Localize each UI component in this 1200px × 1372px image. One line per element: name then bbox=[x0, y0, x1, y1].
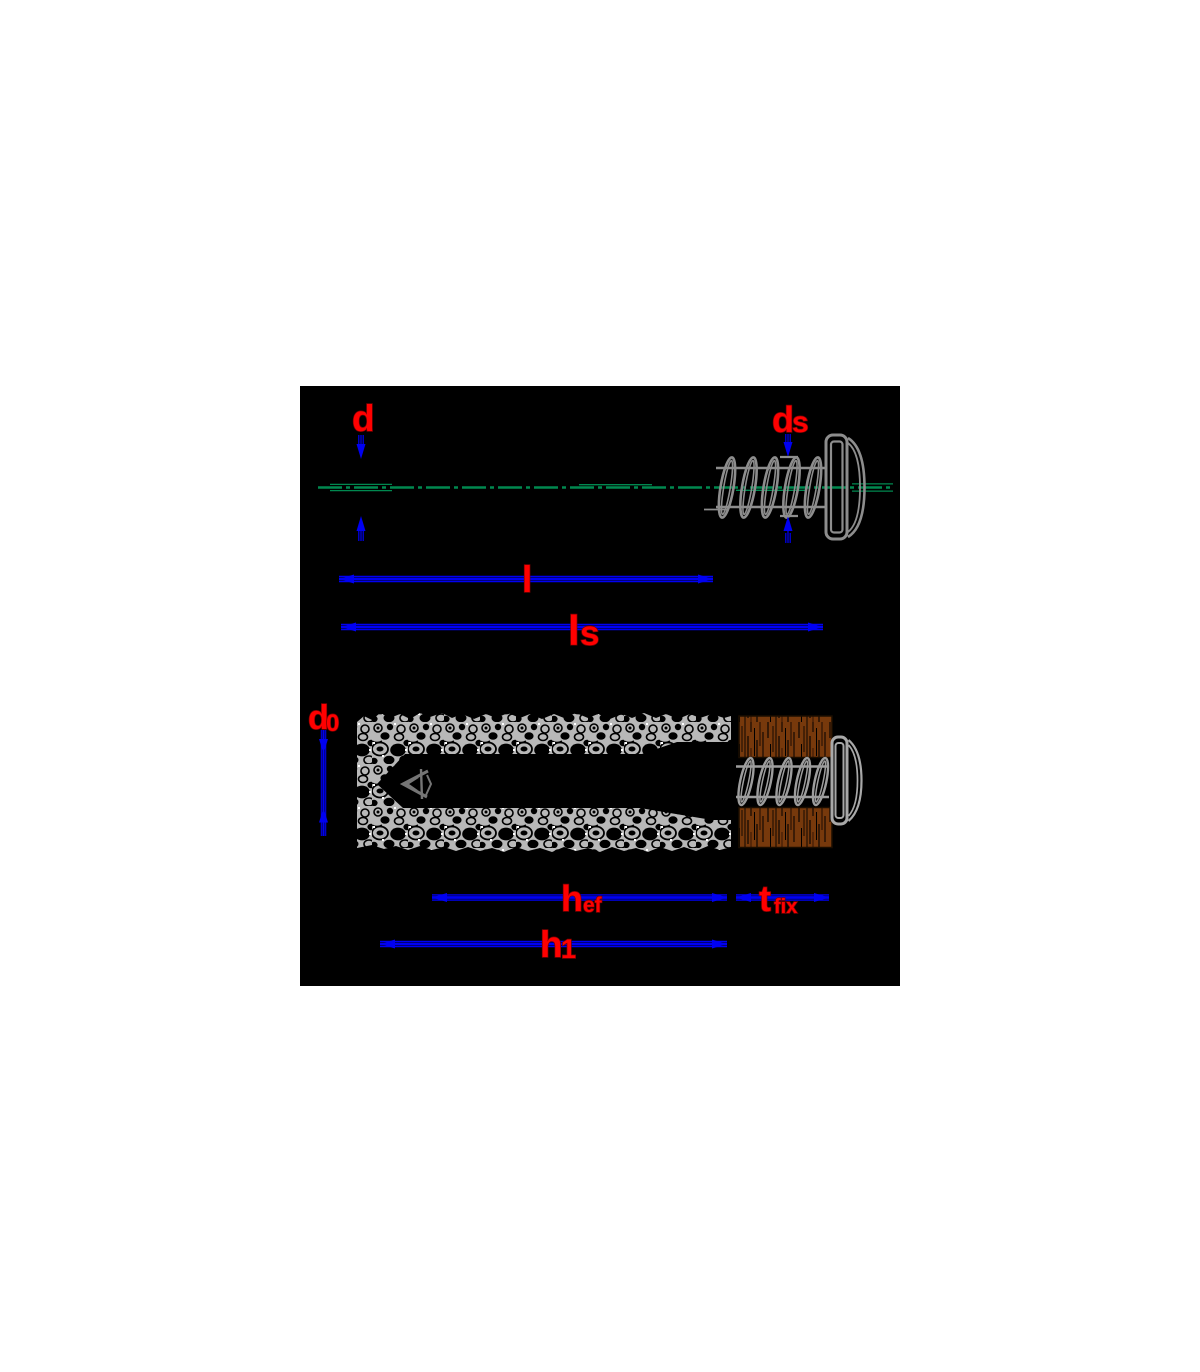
wall section lower band (hatched masonry) bbox=[357, 808, 731, 852]
svg-text:t: t bbox=[759, 878, 771, 919]
svg-text:s: s bbox=[580, 614, 599, 653]
dimension hef bbox=[432, 893, 727, 902]
screw head (lower view) bbox=[832, 737, 862, 824]
svg-text:h: h bbox=[561, 878, 583, 919]
svg-text:h: h bbox=[540, 924, 563, 965]
svg-text:ef: ef bbox=[583, 894, 603, 917]
svg-text:d: d bbox=[772, 399, 794, 440]
screw thread (lower view) bbox=[735, 757, 831, 806]
wooden fixture lower band bbox=[739, 808, 832, 848]
svg-text:0: 0 bbox=[326, 710, 339, 737]
wall section drill-hole conical end bbox=[357, 754, 405, 808]
dimension d arrows bbox=[357, 435, 366, 541]
label d0 bbox=[308, 699, 339, 737]
dimension l bbox=[339, 575, 713, 584]
label hef bbox=[561, 878, 603, 919]
svg-text:d: d bbox=[352, 398, 375, 439]
dimension ds arrows with ticks bbox=[780, 434, 798, 543]
diagram panel bbox=[300, 386, 900, 986]
svg-text:fix: fix bbox=[774, 896, 797, 918]
svg-text:1: 1 bbox=[561, 934, 576, 964]
screw head (upper view) bbox=[826, 435, 865, 539]
dimension d0 arrows bbox=[319, 730, 328, 836]
dimension h1 bbox=[380, 940, 727, 949]
plug anti-rotation tip mark bbox=[403, 769, 431, 799]
label h1 bbox=[540, 924, 576, 965]
centerline (green dash-dot axis of screw) bbox=[318, 484, 893, 491]
label ds bbox=[772, 399, 809, 440]
svg-text:l: l bbox=[522, 559, 532, 600]
svg-text:s: s bbox=[792, 406, 809, 439]
wall section upper band (hatched masonry) bbox=[357, 713, 731, 754]
screw thread (upper view) bbox=[704, 456, 825, 518]
wooden fixture upper band bbox=[739, 716, 832, 758]
label t fix bbox=[759, 878, 797, 919]
dimension ls bbox=[341, 623, 823, 632]
label ls bbox=[568, 607, 599, 654]
dimension t fix bbox=[736, 893, 829, 902]
svg-text:l: l bbox=[568, 607, 580, 654]
